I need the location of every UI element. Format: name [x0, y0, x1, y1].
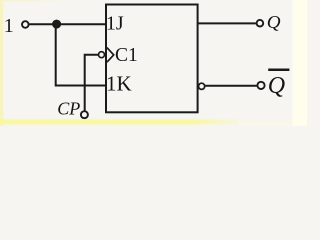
background panel: [0, 0, 307, 126]
wire: Q-bar output from bubble to terminal: [205, 85, 256, 87]
Q-bar terminal circle: [257, 82, 264, 89]
pale yellow page strip on left edge: [0, 0, 3, 126]
inversion bubble at Q-bar output: [199, 83, 205, 89]
wire: Q output from box to terminal: [198, 22, 256, 24]
svg-text:Q: Q: [268, 73, 285, 99]
Q terminal circle: [257, 20, 264, 27]
svg-text:1K: 1K: [106, 71, 132, 95]
input terminal circle (constant 1): [22, 21, 29, 28]
flip-flop U1 (JK) body: [106, 5, 198, 113]
wire: input node 1 to pin 1J: [29, 23, 106, 25]
svg-text:CP: CP: [57, 99, 80, 119]
svg-text:C1: C1: [115, 45, 138, 66]
faint cream tint along top-left edge: [0, 0, 72, 2]
svg-text:1J: 1J: [106, 12, 124, 34]
overline of Q-bar: [268, 68, 289, 71]
cream page strip on right: [293, 0, 308, 126]
svg-text:Q: Q: [267, 12, 281, 32]
dynamic edge-trigger triangle at C1: [107, 48, 114, 63]
faint tail of highlight band toward right: [238, 120, 293, 126]
wire: CP terminal up and right to C1 bubble: [85, 55, 99, 111]
yellow highlight band at bottom: [0, 119, 250, 124]
inversion bubble at C1 clock input: [99, 52, 105, 58]
svg-text:1: 1: [4, 15, 14, 37]
CP terminal circle: [81, 111, 88, 118]
wire: junction down and right to pin 1K: [56, 24, 106, 85]
junction dot on J wire: [52, 20, 61, 29]
